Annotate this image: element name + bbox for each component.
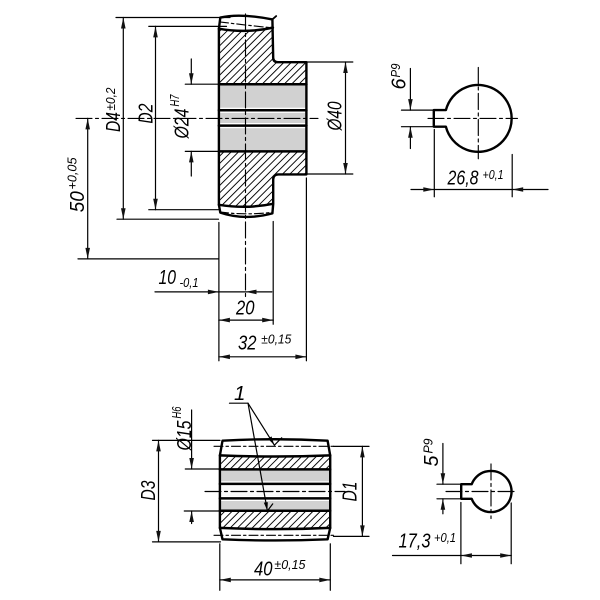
Ø15 arrows (outside) [189,458,194,469]
40 right extension line [329,544,331,591]
bore bottom edge [219,150,307,153]
bore top edge [220,468,330,471]
50 arrows [85,118,90,129]
D1 top extension line [334,445,370,447]
dimension Ø24 H7 lines [190,59,192,84]
leader arrow barb top [274,438,281,445]
horizontal axis centerline [76,117,318,119]
Ø24 extension lines [185,83,219,85]
keyway see-band middle lighter strip [221,486,329,496]
dimension D1 line [361,446,363,536]
D1 arrows [360,446,365,457]
svg-text:D4: D4 [102,112,125,132]
svg-text:H7: H7 [167,94,182,106]
svg-text:D1: D1 [339,482,362,502]
dimension 40 line [220,579,330,581]
32 arrows [219,355,230,360]
svg-text:26,8: 26,8 [447,167,479,190]
keyway slot upper see-line [220,483,330,486]
leader line to top teeth [248,403,274,445]
keyway slot upper see-line white halo [220,108,306,113]
svg-text:50: 50 [66,191,89,213]
dimension 5P9 lines [442,444,444,485]
bore bottom edge [220,509,330,512]
dimension D2 line [155,26,157,209]
svg-text:±0,15: ±0,15 [274,557,306,572]
svg-text:Ø40: Ø40 [324,101,347,131]
keyway slot upper see-line [219,109,307,112]
vertical centerline of tooth band [245,14,247,297]
dimension Ø40 line [345,62,347,174]
keyway slot lower see-line white halo [221,496,329,501]
dimension 6P9 lines [409,69,411,111]
svg-text:32: 32 [238,331,257,354]
Ø40 top extension line [307,61,353,63]
bore Ø15 gray band [220,469,330,510]
root circle line bottom [220,528,330,529]
D4 top extension line [116,17,230,19]
hatch lower band [220,511,330,529]
end view horizontal centerline [446,491,517,493]
svg-text:17,3: 17,3 [399,530,431,553]
40 arrows [220,578,231,583]
gear axis centerline [205,491,345,493]
leader arrowhead bottom [264,502,268,511]
D1 bottom extension line [334,535,370,537]
50 bottom extension line [78,258,219,260]
pitch circle arc bottom [220,212,273,214]
svg-text:5: 5 [420,455,443,467]
svg-text:P9: P9 [388,63,403,78]
end view horizontal centerline [428,117,518,119]
svg-text:+0,1: +0,1 [483,167,504,182]
D3 bottom extension line [153,541,221,543]
svg-text:P9: P9 [421,438,436,454]
Ø40 bottom extension line [307,173,353,175]
Ø15 extension lines [185,468,220,470]
dimension 50 line [87,118,89,259]
dimension 32 line [219,356,307,358]
D3 top extension line [153,439,221,441]
Ø24 arrows (outside) [189,73,194,84]
17,3 extension lines [460,503,462,564]
5P9 extension lines [437,483,461,485]
hatch lower region [219,151,307,206]
root circle line top [220,455,330,456]
20 arrows [219,318,230,323]
leader 1 underline [230,402,249,404]
svg-text:+0,1: +0,1 [434,530,456,545]
dimension 20 line [219,319,273,321]
D2 arrows [153,26,158,37]
root circle arc top [219,28,273,31]
end view vertical centerline [490,464,492,519]
svg-text:+0,05: +0,05 [65,157,80,190]
gear outline [219,16,307,217]
D2 bottom extension line [149,209,219,211]
bore Ø24 gray band [219,84,307,151]
hatch upper region [219,28,307,85]
keyway slot lower see-line [220,497,330,500]
end view vertical centerline [477,68,479,159]
gear outline [220,439,330,540]
svg-text:Ø24: Ø24 [171,109,194,140]
svg-text:D3: D3 [137,480,160,500]
5P9 arrows (outside) [441,473,446,484]
bore circle with keyway [434,85,512,152]
tooth tip corner tick [273,16,277,19]
svg-text:20: 20 [235,296,255,319]
D3 arrows [156,440,161,451]
svg-text:1: 1 [234,382,245,405]
dimension D3 line [158,440,160,542]
svg-text:6: 6 [388,78,411,90]
pitch line top [214,445,336,447]
keyway slot upper see-line white halo [221,481,329,486]
svg-text:10: 10 [159,266,177,289]
40 left extension line [219,544,221,591]
svg-text:D2: D2 [135,103,158,123]
6P9 arrows (outside) [408,99,413,110]
dimension 17,3 line [393,555,512,557]
26,8 extension lines [433,130,435,197]
keyway slot lower see-line [219,124,307,127]
dimension Ø15 lines [191,410,193,469]
pitch circle arc top [220,22,273,28]
svg-text:±0,2: ±0,2 [103,87,118,111]
keyway slot lower see-line white halo [220,123,306,128]
D2 top extension line [149,25,227,27]
dimension 26,8 line [411,189,548,191]
leader arrowhead top [268,436,275,445]
hatch upper band [220,455,330,469]
svg-text:40: 40 [254,557,273,580]
bore top edge [219,83,307,86]
bore circle with keyway [461,471,511,512]
svg-text:H6: H6 [169,406,184,418]
10 arrows (outside) [208,290,219,295]
26,8 arrows (outside) [423,187,434,192]
dimension 10 line [155,291,272,293]
D4 arrows [121,18,126,29]
step face extension line (vertical, below gear) [272,222,274,325]
dimension D4 line [122,18,124,220]
pitch line bottom [214,534,336,536]
svg-text:Ø15: Ø15 [173,420,196,451]
leader line to bottom teeth [248,403,267,511]
boss right face extension line (vertical, below gear) [305,178,307,361]
17,3 arrows (inside pointing out) [461,553,472,558]
D4 bottom extension line [117,218,219,220]
leader arrow barb bottom [267,504,272,511]
left face extension line (vertical, below gear) [218,223,220,361]
Ø40 arrows [343,62,348,73]
root circle arc bottom [219,204,273,207]
svg-text:±0,15: ±0,15 [261,331,292,346]
6P9 extension lines [402,109,434,111]
svg-text:-0,1: -0,1 [180,275,199,290]
